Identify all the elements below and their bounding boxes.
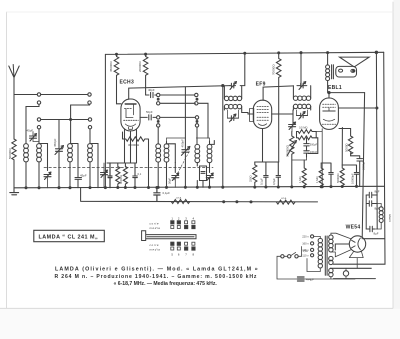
wire L3 bottom bbox=[70, 162, 78, 188]
resistor R3 screen 70000 ohm bbox=[276, 53, 281, 162]
wire OT leads bbox=[327, 53, 329, 93]
svg-text:m e d i a: m e d i a bbox=[150, 248, 161, 252]
cap AVC bbox=[321, 163, 333, 187]
rectifier WE54 bbox=[349, 236, 365, 252]
label 100pF bbox=[310, 150, 318, 154]
wire left vertical of ECH3 bbox=[104, 54, 106, 187]
wire osc row 117 bbox=[160, 116, 195, 118]
svg-text:c o r t e: c o r t e bbox=[150, 221, 159, 225]
antenna bbox=[9, 65, 19, 95]
svg-text:0,1µF: 0,1µF bbox=[260, 178, 264, 185]
label 45pF b bbox=[80, 174, 87, 178]
mains cap bbox=[298, 277, 305, 281]
padder box bbox=[200, 166, 207, 181]
wire IFT2 feed vertical bbox=[300, 53, 302, 86]
label cathode R bbox=[120, 175, 123, 184]
svg-text:0,5 MΩ: 0,5 MΩ bbox=[299, 126, 307, 130]
model label text bbox=[39, 235, 99, 241]
power transformer winding small bbox=[329, 256, 333, 264]
wire HT bottom diagonal bbox=[331, 250, 351, 257]
wire EF9 diode bbox=[272, 110, 293, 124]
speaker cone bbox=[340, 57, 370, 67]
svg-text:5: 5 bbox=[171, 252, 173, 256]
resistor bus a bbox=[171, 200, 190, 204]
power transformer primary bbox=[318, 238, 322, 268]
label 160v bbox=[302, 242, 309, 246]
resistor EBL1 cathode bbox=[339, 129, 353, 156]
label 500pF bbox=[310, 143, 318, 147]
IFT2 secondary coil bbox=[293, 104, 310, 110]
label 8uF a bbox=[375, 190, 380, 194]
svg-text:u.r.a.: u.r.a. bbox=[176, 196, 182, 200]
contact 3a bbox=[37, 118, 40, 121]
wire grid cap 40pF row bbox=[146, 92, 157, 97]
resistor det 50000 h bbox=[297, 130, 317, 134]
svg-text:campo: campo bbox=[389, 213, 392, 222]
svg-text:45pF: 45pF bbox=[27, 129, 34, 133]
label 450pF osc bbox=[181, 139, 185, 148]
wire osc coil A top bbox=[157, 127, 159, 144]
top HT bus bbox=[105, 52, 383, 54]
ground bbox=[10, 188, 19, 195]
wire contact2a to coil L1 bbox=[26, 104, 39, 143]
wire L3 top bbox=[70, 144, 78, 163]
junction dots top bus bbox=[116, 52, 329, 56]
cap EBL1 tone bbox=[351, 156, 363, 187]
svg-text:6: 6 bbox=[178, 252, 180, 256]
svg-text:u.r.a.: u.r.a. bbox=[281, 196, 287, 200]
IFT1 primary coil bbox=[224, 86, 241, 101]
contact 6a bbox=[157, 102, 160, 105]
cap screen bypass bbox=[276, 162, 280, 187]
label 0,1uF d bbox=[260, 178, 264, 185]
svg-text:c o r t e: c o r t e bbox=[150, 243, 159, 247]
wiper dots osc switch bbox=[157, 98, 198, 122]
IFT2 primary coil bbox=[293, 86, 310, 101]
cap 50pF triode grid bbox=[140, 115, 157, 120]
cap det 500pF bbox=[304, 138, 309, 151]
dots media top bbox=[171, 226, 195, 229]
svg-text:40pF: 40pF bbox=[148, 88, 155, 92]
wire rectifier filament pins bbox=[349, 251, 363, 269]
svg-text:450pF: 450pF bbox=[53, 138, 57, 147]
svg-text:50000Ω: 50000Ω bbox=[8, 148, 12, 159]
svg-text:45000Ω: 45000Ω bbox=[109, 61, 113, 72]
contact 2a bbox=[37, 101, 40, 104]
scan margin tint right bbox=[393, 0, 400, 339]
output transformer core bbox=[332, 65, 334, 79]
svg-text:R 264 M n. – Produzione 1940-1: R 264 M n. – Produzione 1940-1941. – Gam… bbox=[55, 274, 258, 280]
svg-text:4+4µF: 4+4µF bbox=[306, 277, 314, 281]
power transformer HT secondary bbox=[329, 235, 333, 252]
resistor AVC 1 bbox=[302, 160, 306, 187]
wire antenna lead down bbox=[13, 95, 15, 140]
label 40pF bbox=[148, 88, 155, 92]
contact 5a bbox=[157, 93, 160, 96]
svg-text:30000Ω: 30000Ω bbox=[120, 175, 123, 184]
svg-text:1,5a: 1,5a bbox=[303, 249, 309, 253]
speaker body bbox=[336, 66, 357, 77]
dashed arrow gang to varcap bbox=[174, 150, 190, 180]
resistor antenna shunt bbox=[12, 139, 16, 160]
label corto bottom bbox=[150, 243, 159, 247]
second bus decoupling bbox=[81, 188, 318, 202]
wire osc coil B bottom bbox=[167, 162, 176, 187]
volume potentiometer 500000 ohm bbox=[287, 132, 296, 187]
band switch numbers bottom bbox=[171, 252, 194, 256]
trimmer IFT2 top bbox=[297, 82, 307, 90]
label campo bbox=[389, 213, 392, 222]
IFT1 secondary coil bbox=[224, 104, 241, 110]
wire EF9 top cap bbox=[263, 86, 293, 100]
label 450pF bbox=[53, 138, 57, 147]
junction dot L3 bbox=[70, 119, 72, 121]
wire resistor to ground bus bbox=[13, 160, 15, 188]
wire osc coil C bottom bbox=[197, 163, 203, 188]
contact 3b bbox=[88, 118, 91, 121]
label 50000 ohm c bbox=[336, 174, 340, 183]
wire EF9 cathode bbox=[255, 129, 279, 163]
trimmer IFT1 bottom bbox=[228, 110, 239, 122]
wire osc coil D bottom + trimmer bbox=[206, 163, 213, 188]
label corto top bbox=[150, 221, 159, 225]
junction dots ground bus bbox=[25, 185, 358, 188]
wire osc anode vertical bbox=[184, 87, 186, 150]
contact 2b bbox=[88, 101, 91, 104]
resistor EF9 cathode 250 ohm bbox=[253, 162, 257, 187]
contact 5b bbox=[195, 93, 198, 96]
wire antenna row contacts bbox=[14, 94, 88, 96]
filter cap 8uF b bbox=[366, 195, 377, 229]
coil L4 bbox=[88, 144, 98, 163]
svg-text:20000Ω: 20000Ω bbox=[138, 61, 142, 72]
resistor 30000 under ECH3 bbox=[123, 132, 149, 188]
caption line 1 bbox=[55, 266, 259, 272]
label mains cap bbox=[306, 277, 314, 281]
wire EBL1 screen right bbox=[338, 107, 377, 109]
svg-text:8: 8 bbox=[193, 252, 195, 256]
svg-text:« 6-18,7 MHz. — Media frequenz: « 6-18,7 MHz. — Media frequenza: 475 kHz… bbox=[114, 281, 218, 287]
svg-text:45pF: 45pF bbox=[80, 174, 87, 178]
wire ECH3 pins down bbox=[107, 130, 137, 164]
cap EF9 cathode bypass bbox=[264, 162, 268, 187]
label 70000 ohm bbox=[272, 64, 276, 75]
svg-text:8µF: 8µF bbox=[375, 190, 380, 194]
tuning capacitor C2 450pF osc bbox=[181, 146, 190, 187]
dashed gang line bbox=[44, 166, 213, 168]
wire L2 bottom bbox=[39, 162, 48, 188]
label ECH3 bbox=[120, 80, 135, 86]
label 0,1uF bus bbox=[163, 191, 171, 195]
osc coil B bbox=[164, 142, 175, 163]
wire primary bottom bbox=[307, 259, 320, 272]
contact 6b bbox=[195, 102, 198, 105]
label 30000 ohm bbox=[128, 143, 140, 147]
trimmer cap 45pF bbox=[30, 132, 40, 142]
wire IFT1 left vertical down bbox=[222, 86, 224, 188]
dots corto bottom bbox=[171, 242, 195, 245]
cap det 100pF bbox=[304, 151, 309, 157]
svg-text:1: 1 bbox=[171, 217, 173, 221]
contact 7b bbox=[195, 116, 198, 119]
contact 1a bbox=[37, 93, 40, 96]
dots corto top bbox=[171, 221, 195, 224]
wire EBL1 top cap bbox=[329, 93, 365, 98]
tap circle 110v bbox=[311, 254, 314, 257]
junction dot IFT1 bbox=[222, 85, 224, 87]
cap grid EBL1 bbox=[342, 165, 359, 186]
wire osc row 95 bbox=[160, 94, 195, 96]
svg-text:7: 7 bbox=[185, 252, 187, 256]
contact 8a bbox=[157, 124, 160, 127]
svg-text:1 MΩ: 1 MΩ bbox=[298, 177, 302, 184]
cap 0,1uF bus bbox=[154, 188, 160, 202]
mains switch bbox=[281, 247, 308, 259]
trimmer IFT2 bottom bbox=[297, 110, 308, 119]
label 50pF osc bbox=[168, 178, 172, 184]
wire heater winding leads bbox=[329, 268, 332, 278]
label media bottom bbox=[150, 248, 161, 252]
trimmer detector 50pF bbox=[289, 122, 296, 132]
resistor cathode ECH3 a bbox=[116, 163, 120, 188]
band switch shaft bbox=[142, 231, 196, 241]
svg-text:2: 2 bbox=[178, 217, 180, 221]
svg-text:ECH3: ECH3 bbox=[120, 80, 135, 86]
label 250 ohm bbox=[249, 176, 253, 183]
value 50000 ohm bbox=[8, 148, 12, 159]
resistor AVC 2 bbox=[319, 163, 323, 187]
label 150 ohm bbox=[344, 143, 348, 152]
wire IFT1 feed vertical bbox=[240, 53, 245, 85]
resistor bus b bbox=[276, 200, 295, 204]
svg-text:4: 4 bbox=[193, 217, 195, 221]
tube EBL1 bbox=[320, 98, 339, 129]
wire B+ vertical outer bbox=[333, 52, 385, 264]
osc coil C bbox=[195, 144, 200, 162]
label 10000pF bbox=[350, 173, 354, 184]
svg-text:30000 Ω: 30000 Ω bbox=[128, 143, 140, 147]
trimmer under ECH3 bbox=[101, 163, 108, 188]
cap 0.1uF under ECH3 bbox=[133, 163, 138, 188]
contact 4a bbox=[37, 126, 40, 129]
wire HT top to rectifier bbox=[331, 233, 351, 239]
wire osc coil A bottom bbox=[157, 162, 159, 187]
label 20000 ohm bbox=[138, 61, 142, 72]
wire screen vertical right bbox=[362, 93, 364, 239]
label bus Rb bbox=[281, 196, 287, 200]
junction dot top bus right bbox=[375, 51, 377, 53]
tube EF9 bbox=[250, 100, 272, 128]
svg-text:3: 3 bbox=[185, 217, 187, 221]
power transformer core bbox=[325, 236, 327, 275]
svg-text:0,1: 0,1 bbox=[138, 172, 142, 176]
resistor R1 45000 ohm bbox=[114, 54, 121, 104]
band switch numbers top bbox=[171, 217, 194, 221]
wire mains left bbox=[277, 256, 355, 279]
tap circle 160v bbox=[311, 242, 314, 245]
resistor det 2 h bbox=[297, 132, 317, 140]
svg-text:0,1µF: 0,1µF bbox=[163, 191, 171, 195]
tube ECH3 bbox=[121, 99, 140, 131]
label media top bbox=[150, 226, 161, 230]
tap circle 125v bbox=[311, 248, 314, 251]
filter cap 8uF a bbox=[366, 192, 377, 198]
dial lamp bbox=[343, 268, 348, 278]
svg-text:500pF: 500pF bbox=[310, 143, 318, 147]
svg-text:50pF: 50pF bbox=[146, 110, 153, 114]
wire B+ vertical 377 bbox=[376, 52, 378, 229]
tap circle 220v bbox=[311, 235, 314, 238]
label 45pF bbox=[27, 129, 34, 133]
wire contact2b to coil L3 bbox=[71, 104, 90, 143]
label bus Ra bbox=[176, 196, 182, 200]
caption line 3 bbox=[114, 281, 218, 287]
svg-text:110 v: 110 v bbox=[302, 254, 309, 258]
svg-text:m e d i a: m e d i a bbox=[150, 226, 161, 230]
svg-text:EF9: EF9 bbox=[256, 81, 266, 87]
dots media bottom bbox=[171, 247, 195, 250]
field coil campo bbox=[375, 204, 384, 230]
svg-text:70000Ω: 70000Ω bbox=[272, 64, 276, 75]
label 1 Mohm a bbox=[298, 177, 302, 184]
svg-text:EBL1: EBL1 bbox=[328, 85, 342, 91]
svg-text:160 v: 160 v bbox=[302, 242, 309, 246]
cap blob under ECH3 bbox=[108, 163, 112, 188]
caption line 2 bbox=[55, 274, 258, 280]
label 5000pF bbox=[362, 161, 366, 170]
trimmer under coil B 50pF bbox=[172, 173, 179, 187]
label EF9 bbox=[256, 81, 266, 87]
wire L1 bottom bbox=[25, 162, 27, 188]
wire rectifier filament left bbox=[335, 244, 349, 250]
coil L1 bbox=[24, 144, 29, 162]
wire contact4b down bbox=[89, 129, 91, 144]
wire det to EBL1 grid bbox=[308, 138, 318, 154]
resistor AVC 3 bbox=[340, 128, 344, 187]
wire contact4a down bbox=[38, 129, 40, 144]
label EBL1 bbox=[328, 85, 342, 91]
svg-text:LAMDA (Olivieri e Glisenti). —: LAMDA (Olivieri e Glisenti). — Mod. « La… bbox=[55, 266, 259, 272]
wire IFT1 to EF9 grid bbox=[242, 110, 254, 114]
svg-text:50pF: 50pF bbox=[168, 178, 172, 184]
resistor cathode ECH3 b bbox=[123, 163, 127, 188]
coil L2 bbox=[37, 144, 48, 163]
svg-text:8µF: 8µF bbox=[374, 232, 379, 236]
svg-text:50000Ω: 50000Ω bbox=[336, 174, 340, 183]
trimmer IFT1 top bbox=[230, 82, 237, 90]
contact 1b bbox=[88, 93, 91, 96]
svg-text:1 MΩ: 1 MΩ bbox=[315, 177, 319, 184]
junction dots bus2 bbox=[223, 201, 252, 203]
label 0,1uF c bbox=[138, 172, 142, 176]
label 8uF b bbox=[375, 207, 380, 211]
wire osc grid vertical bbox=[167, 138, 210, 142]
output transformer primary winding bbox=[326, 65, 330, 81]
trimmer below L2 bbox=[44, 172, 51, 188]
label 50pF bbox=[146, 110, 153, 114]
label 1 Mohm b bbox=[315, 177, 319, 184]
contact 7a bbox=[157, 116, 160, 119]
osc coil A bbox=[156, 144, 161, 162]
svg-text:220 v: 220 v bbox=[302, 235, 309, 239]
osc coil D bbox=[207, 141, 214, 163]
label 45000 ohm bbox=[109, 61, 113, 72]
wire osc coil C top bbox=[196, 119, 198, 144]
svg-text:LAMDA “ CL 241 M„: LAMDA “ CL 241 M„ bbox=[39, 235, 99, 241]
wire ECH3 top grid cap bbox=[129, 86, 230, 100]
svg-text:10000pF: 10000pF bbox=[350, 173, 354, 184]
svg-text:500000Ω: 500000Ω bbox=[285, 144, 289, 157]
svg-text:0,5µF: 0,5µF bbox=[272, 178, 276, 185]
label WE54 bbox=[346, 224, 361, 230]
wire primary top tap bbox=[314, 236, 321, 238]
label 125v bbox=[302, 248, 309, 252]
label 110v bbox=[302, 254, 309, 258]
cap below L3 bbox=[75, 175, 82, 188]
svg-text:WE54: WE54 bbox=[346, 224, 361, 230]
wire osc row 103 bbox=[160, 103, 208, 138]
heater rail bottom bbox=[333, 278, 375, 280]
svg-text:5000Ω: 5000Ω bbox=[344, 143, 348, 152]
junction dot OT anode bbox=[328, 92, 330, 94]
heater rail top bbox=[330, 267, 371, 269]
model label box bbox=[34, 230, 105, 241]
power transformer heater winding bbox=[329, 268, 333, 276]
coil L3 bbox=[68, 144, 73, 162]
bottom ground bus bbox=[14, 186, 384, 188]
wire L4 bottom bbox=[90, 162, 98, 188]
label det R1 bbox=[299, 126, 307, 130]
label 8uF c bbox=[374, 232, 379, 236]
label 0,5uF bbox=[272, 178, 276, 185]
filter cap 8uF c bbox=[366, 226, 374, 232]
label 220v bbox=[302, 235, 309, 239]
contact 8b bbox=[195, 124, 198, 127]
svg-text:450pF: 450pF bbox=[181, 139, 185, 148]
scan margin tint bottom bbox=[0, 309, 400, 339]
tuning capacitor C1 450pF bbox=[55, 120, 64, 188]
contact 4b bbox=[88, 126, 91, 129]
wire row 119 bbox=[41, 119, 89, 121]
svg-text:250Ω: 250Ω bbox=[249, 176, 253, 183]
wire rectifier anode feed bbox=[364, 238, 385, 240]
wire det caps down bbox=[292, 157, 307, 160]
wire EBL1 pins down bbox=[316, 129, 322, 187]
resistor R2 30000 ohm bbox=[143, 54, 148, 95]
label 500000 ohm pot bbox=[285, 144, 289, 157]
